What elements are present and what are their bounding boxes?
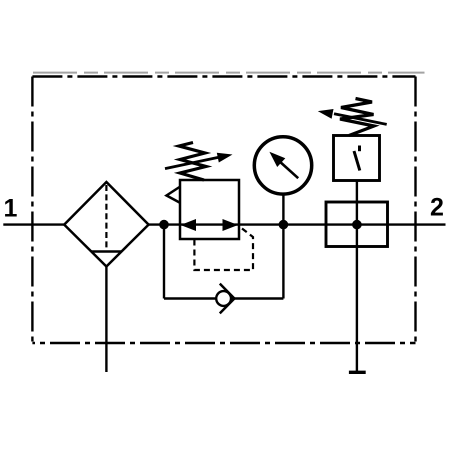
svg-text:1: 1	[4, 194, 18, 222]
svg-text:2: 2	[430, 194, 444, 222]
